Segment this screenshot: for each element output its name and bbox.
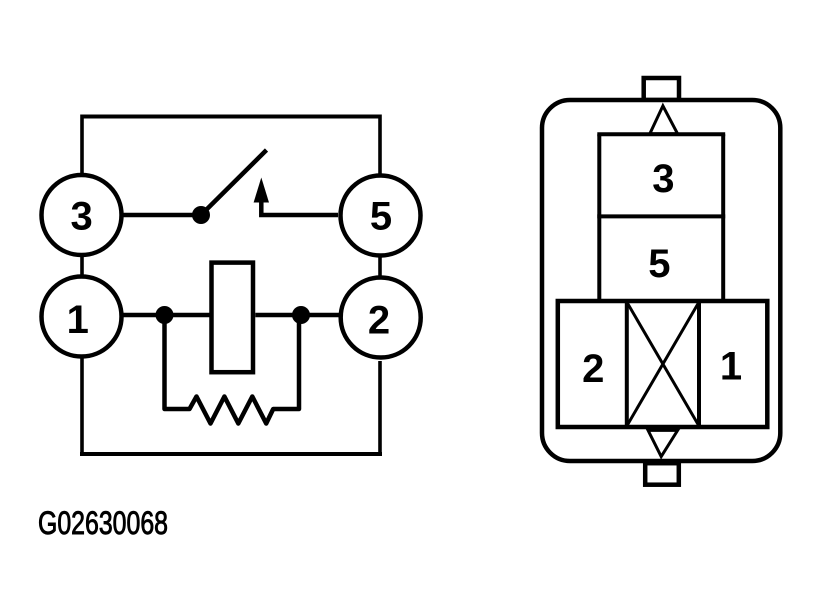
svg-text:5: 5	[370, 195, 392, 239]
svg-text:1: 1	[67, 298, 89, 342]
svg-text:3: 3	[70, 195, 92, 239]
svg-text:3: 3	[652, 157, 674, 201]
svg-text:2: 2	[582, 347, 604, 391]
svg-text:2: 2	[368, 299, 390, 343]
svg-text:1: 1	[720, 345, 742, 389]
svg-text:G02630068: G02630068	[38, 505, 168, 541]
svg-text:5: 5	[648, 242, 670, 286]
